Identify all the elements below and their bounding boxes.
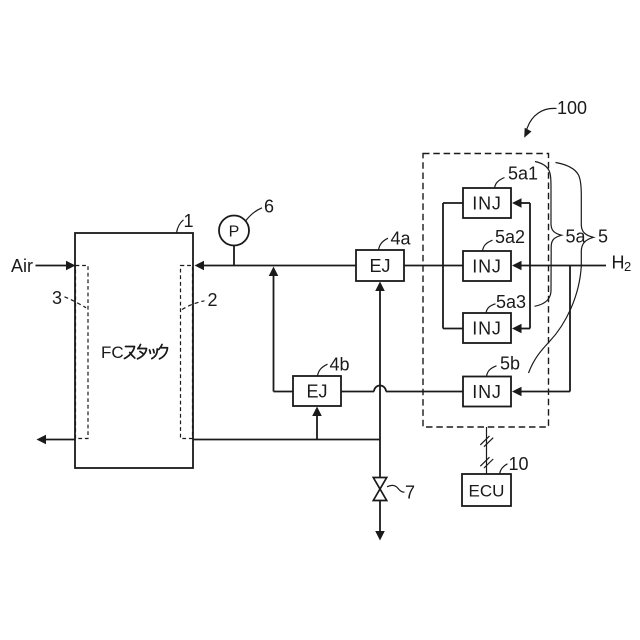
svg-text:H: H [612, 253, 625, 273]
svg-text:INJ: INJ [472, 319, 501, 339]
svg-text:2: 2 [207, 290, 217, 310]
svg-text:6: 6 [264, 197, 274, 217]
svg-text:P: P [229, 224, 240, 241]
svg-text:2: 2 [624, 259, 631, 274]
svg-text:100: 100 [557, 98, 587, 118]
svg-text:EJ: EJ [369, 256, 390, 276]
svg-text:7: 7 [405, 483, 415, 503]
svg-text:5a3: 5a3 [496, 292, 526, 312]
svg-text:3: 3 [52, 288, 62, 308]
svg-text:INJ: INJ [472, 382, 501, 402]
svg-text:10: 10 [508, 454, 528, 474]
svg-text:4a: 4a [390, 229, 411, 249]
svg-text:5: 5 [598, 227, 608, 247]
svg-text:5a1: 5a1 [508, 164, 538, 184]
svg-text:ECU: ECU [469, 482, 505, 501]
svg-text:5a2: 5a2 [495, 227, 525, 247]
svg-text:5b: 5b [500, 354, 520, 374]
svg-text:1: 1 [183, 211, 193, 231]
svg-text:INJ: INJ [472, 257, 501, 277]
svg-text:4b: 4b [329, 355, 349, 375]
svg-text:INJ: INJ [472, 194, 501, 214]
svg-text:EJ: EJ [306, 382, 327, 402]
svg-text:FC: FC [101, 343, 124, 362]
svg-text:Air: Air [11, 256, 33, 276]
